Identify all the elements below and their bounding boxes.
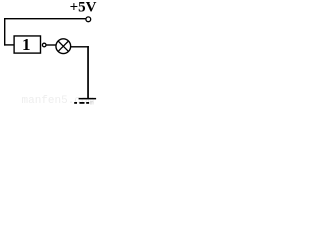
svg-text:+5V: +5V [70, 0, 97, 16]
ground bar 2 dash c [86, 102, 89, 104]
svg-text:m: m [90, 100, 94, 107]
lamp X diagonal 1 [58, 41, 68, 51]
svg-text:1: 1 [22, 35, 31, 54]
svg-text:manfen5.com: manfen5.com [22, 95, 95, 107]
ground bar 2 dash b [79, 102, 84, 104]
wire: right vertical down to ground [87, 46, 89, 98]
ground bar 2 dash a [74, 102, 77, 104]
background [0, 0, 98, 110]
+5V terminal [86, 17, 91, 22]
lamp L1 circle [56, 39, 71, 54]
wire: lamp to right corner [70, 46, 89, 47]
inverter bubble on gate output [42, 43, 46, 47]
lamp X diagonal 2 [58, 41, 68, 51]
wire: bubble to lamp [46, 44, 56, 45]
wire: into gate input [4, 44, 14, 45]
wire: top horizontal from left corner to +5V terminal [4, 18, 86, 19]
logic gate U1 box [14, 36, 40, 53]
wire: left vertical [4, 18, 5, 46]
ground bar 1 [79, 98, 97, 100]
